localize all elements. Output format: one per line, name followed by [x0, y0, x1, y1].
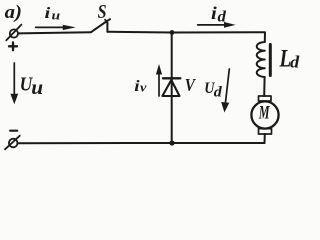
wire top-right: node A to corner [172, 32, 265, 42]
wire top-left: terminal to switch S [18, 32, 91, 33]
label i_v [134, 77, 147, 95]
svg-text:d: d [290, 52, 299, 71]
svg-text:и: и [52, 9, 61, 23]
svg-text:d: d [218, 9, 227, 25]
wire top-middle: switch to node A [107, 31, 172, 34]
wire: motor to bottom wire [264, 134, 266, 143]
node A (top junction dot) [170, 30, 175, 35]
switch S [91, 19, 110, 32]
minus sign [10, 130, 17, 132]
motor M top brush [259, 96, 272, 101]
diode V branch wire (node A to node B) [171, 33, 173, 144]
wire bottom: corner to node B [172, 142, 265, 144]
svg-text:M: M [258, 103, 270, 123]
current arrow i_v (upward) [156, 64, 162, 96]
node B (bottom junction dot) [169, 140, 174, 145]
label i_d [211, 4, 227, 25]
inductor Ld (smoothing reactor winding) [257, 42, 265, 77]
svg-text:V: V [185, 75, 197, 96]
svg-text:i: i [45, 4, 52, 22]
current arrow i_и [36, 25, 76, 30]
diode V cathode bar [163, 77, 180, 79]
voltage arrow U_d (downward) [221, 69, 229, 113]
terminal - (bottom-left input terminal) [5, 136, 20, 150]
wire bottom-left: node B to terminal - [18, 142, 173, 144]
label i_и [45, 4, 61, 23]
voltage arrow U_и (downward) [10, 63, 18, 104]
svg-text:d: d [214, 84, 222, 100]
motor M bottom brush [259, 129, 272, 134]
svg-text:i: i [211, 4, 217, 24]
svg-text:i: i [134, 77, 139, 95]
label L_d [279, 44, 300, 72]
label U_d [204, 80, 222, 100]
svg-text:а): а) [5, 1, 22, 22]
terminal + (top-left input terminal) [6, 25, 21, 41]
svg-text:и: и [31, 75, 43, 99]
wire: inductor to motor [263, 77, 265, 96]
current arrow i_d [198, 22, 236, 28]
plus sign [9, 42, 17, 50]
svg-text:v: v [140, 80, 147, 94]
label U_и [20, 73, 44, 98]
diode V triangle [162, 80, 179, 96]
svg-text:S: S [98, 1, 107, 23]
motor M armature circle [251, 101, 278, 128]
inductor Ld core bar [269, 45, 272, 76]
